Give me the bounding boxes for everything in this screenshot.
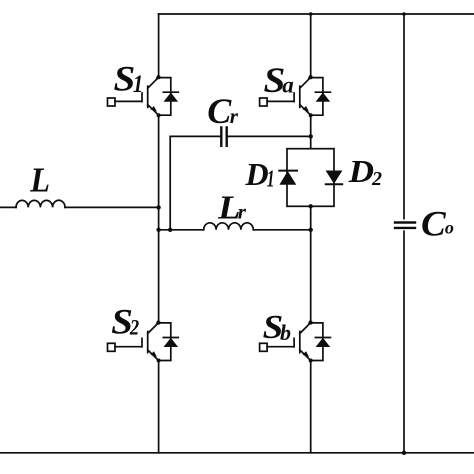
node junction Cr branch / Lr wire	[168, 228, 172, 232]
node junction middle rail top bus	[309, 12, 313, 16]
wire left rail upper (top bus to S1 collector)	[158, 14, 160, 77]
transistor Sa (IGBT with freewheeling diode)	[260, 75, 331, 117]
wire input lead left of L	[0, 206, 16, 208]
svg-text:D: D	[348, 153, 374, 189]
wire top bus	[159, 13, 474, 15]
svg-text:C: C	[207, 91, 232, 131]
wire from L to left rail	[65, 206, 159, 208]
diode box outline	[287, 149, 334, 207]
diode D1 (on left edge, pointing up)	[279, 171, 297, 185]
node junction right rail top bus	[402, 12, 406, 16]
svg-text:1: 1	[267, 167, 275, 193]
transistor S1 (IGBT with freewheeling diode)	[108, 75, 179, 117]
wire right rail upper (top bus to Co)	[403, 14, 405, 219]
wire left rail middle (S1 emitter to S2 collector)	[158, 115, 160, 322]
svg-text:L: L	[29, 161, 50, 200]
wire middle rail (diode box bottom to Sb collector)	[310, 206, 312, 322]
svg-text:b: b	[280, 320, 291, 345]
transistor Sb (IGBT with freewheeling diode)	[260, 320, 331, 362]
inductor L	[16, 200, 65, 207]
capacitor Cr plates	[221, 126, 226, 147]
node junction right rail bottom bus	[402, 451, 406, 455]
wire Lr tap from left rail	[159, 229, 204, 231]
svg-text:1: 1	[133, 71, 144, 98]
capacitor Co plates	[394, 223, 416, 228]
wire middle rail upper (top bus to Sa collector)	[310, 14, 312, 77]
node junction Cr wire / middle rail	[309, 134, 313, 138]
svg-text:2: 2	[371, 168, 382, 190]
svg-text:r: r	[238, 200, 247, 224]
wire left rail lower (S2 emitter to bottom bus)	[158, 361, 160, 453]
svg-text:o: o	[445, 217, 454, 237]
node junction Lr / middle rail	[309, 228, 313, 232]
node junction diode box bottom / middle rail	[309, 204, 313, 208]
wire bottom bus	[0, 452, 474, 454]
wire Cr branch vertical	[170, 136, 221, 229]
node junction left rail / Lr wire	[156, 228, 160, 232]
wire right rail lower (Co to bottom bus)	[403, 231, 405, 453]
svg-text:a: a	[282, 72, 294, 97]
wire middle rail lower (Sb emitter to bottom bus)	[310, 361, 312, 453]
wire Lr to middle rail	[253, 229, 310, 231]
node junction L / left rail	[156, 205, 160, 209]
svg-text:C: C	[421, 204, 447, 244]
svg-text:D: D	[245, 156, 269, 192]
transistor S2 (IGBT with freewheeling diode)	[108, 320, 179, 362]
svg-text:2: 2	[129, 314, 139, 339]
inductor Lr	[204, 223, 254, 230]
wire middle rail (Sa emitter to diode box top)	[310, 115, 312, 149]
diode D2 (on right edge, pointing down)	[326, 171, 343, 185]
svg-text:r: r	[230, 104, 239, 128]
wire Cr to middle rail	[227, 135, 311, 137]
